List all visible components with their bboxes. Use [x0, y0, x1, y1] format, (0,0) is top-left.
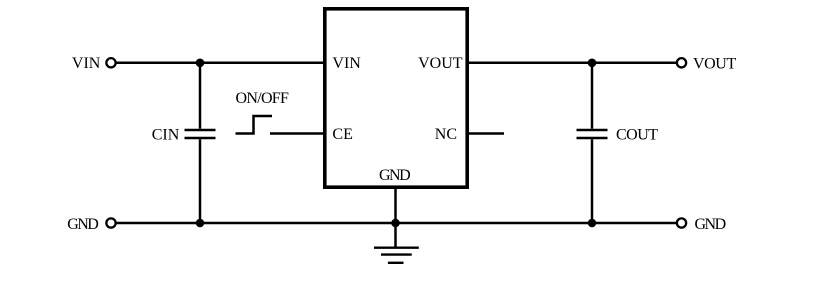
pin CE label: [332, 126, 352, 143]
terminal GND right: [677, 218, 686, 227]
svg-text:CIN: CIN: [152, 126, 180, 143]
wire GND rail bottom: [114, 222, 678, 225]
label terminal GND left: [67, 216, 98, 233]
wire VIN terminal to IC VIN pin: [114, 62, 324, 65]
svg-text:VOUT: VOUT: [693, 55, 736, 72]
capacitor CIN: [185, 129, 216, 140]
pin NC label: [435, 126, 457, 143]
pin VIN label: [332, 55, 361, 72]
wire CIN lower lead: [199, 139, 202, 223]
wire step symbol to CE pin: [270, 132, 324, 135]
node junction IC-GND/rail: [391, 219, 400, 228]
wire NC stub: [468, 132, 504, 135]
wire COUT lower lead: [591, 139, 594, 223]
wire CIN upper lead: [199, 63, 202, 129]
node junction VOUT/COUT: [588, 59, 597, 68]
svg-text:ON/OFF: ON/OFF: [236, 90, 290, 107]
step waveform symbol ON/OFF: [236, 116, 273, 134]
label ON/OFF: [236, 90, 290, 107]
label terminal VOUT: [693, 55, 736, 72]
label CIN value: [152, 126, 180, 143]
wire IC GND pin down to ground: [394, 188, 397, 248]
node junction CIN/GND: [196, 219, 205, 228]
svg-text:COUT: COUT: [616, 126, 658, 143]
svg-text:GND: GND: [67, 216, 98, 233]
IC U1 body: [325, 9, 467, 187]
node junction COUT/GND: [588, 219, 597, 228]
wire VOUT pin to VOUT terminal: [468, 62, 678, 65]
capacitor COUT: [577, 129, 608, 140]
ground symbol: [374, 248, 419, 263]
pin GND label: [379, 167, 410, 184]
svg-text:VIN: VIN: [332, 55, 361, 72]
svg-text:GND: GND: [695, 216, 726, 233]
node junction VIN/CIN: [196, 59, 205, 68]
terminal VIN: [106, 58, 115, 67]
svg-text:NC: NC: [435, 126, 457, 143]
svg-text:CE: CE: [332, 126, 352, 143]
svg-text:VOUT: VOUT: [418, 55, 463, 72]
svg-text:GND: GND: [379, 167, 410, 184]
label terminal GND right: [695, 216, 726, 233]
label COUT value: [616, 126, 658, 143]
terminal VOUT: [677, 58, 686, 67]
wire COUT upper lead: [591, 63, 594, 129]
svg-text:VIN: VIN: [72, 55, 101, 72]
terminal GND left: [106, 218, 115, 227]
pin VOUT label: [418, 55, 463, 72]
label terminal VIN: [72, 55, 101, 72]
